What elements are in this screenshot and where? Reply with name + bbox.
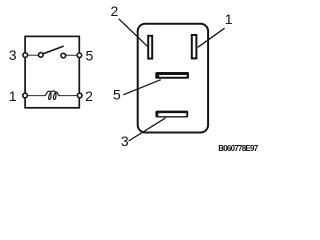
svg-text:5: 5 — [113, 87, 121, 103]
svg-text:3: 3 — [121, 133, 129, 149]
leader to pin 3 slot — [129, 118, 166, 141]
wire bottom-right (coil to pin2) — [60, 95, 80, 97]
connector body — [138, 24, 208, 133]
switch contact right — [61, 53, 66, 58]
svg-text:2: 2 — [111, 3, 119, 19]
pin 2 slot (vertical) — [148, 36, 152, 59]
pin 1 slot (vertical) — [192, 35, 197, 58]
terminal pin 1 — [23, 93, 28, 98]
wire top-right (contact to pin5) — [63, 54, 79, 56]
wire bottom-left (pin1 to coil) — [25, 95, 45, 97]
svg-text:1: 1 — [225, 11, 233, 27]
svg-text:1: 1 — [9, 88, 17, 104]
pin 3 slot (horizontal) — [155, 111, 188, 118]
coil L — [44, 91, 60, 100]
terminal pin 5 — [77, 53, 82, 58]
relay box outline — [25, 36, 79, 107]
leader to pin 2 slot — [119, 19, 148, 47]
svg-text:3: 3 — [9, 47, 17, 63]
pin 5 slot (horizontal) — [155, 72, 189, 79]
leader to pin 1 slot — [198, 28, 225, 47]
svg-text:B060778E97: B060778E97 — [218, 144, 259, 153]
switch arm — [42, 46, 64, 54]
wire top-left (pin3 to contact) — [25, 54, 41, 56]
terminal pin 3 — [23, 53, 28, 58]
leader to pin 5 slot — [123, 80, 161, 95]
switch contact left — [39, 53, 44, 58]
terminal pin 2 — [77, 93, 82, 98]
svg-text:5: 5 — [86, 48, 94, 64]
svg-text:2: 2 — [85, 88, 93, 104]
